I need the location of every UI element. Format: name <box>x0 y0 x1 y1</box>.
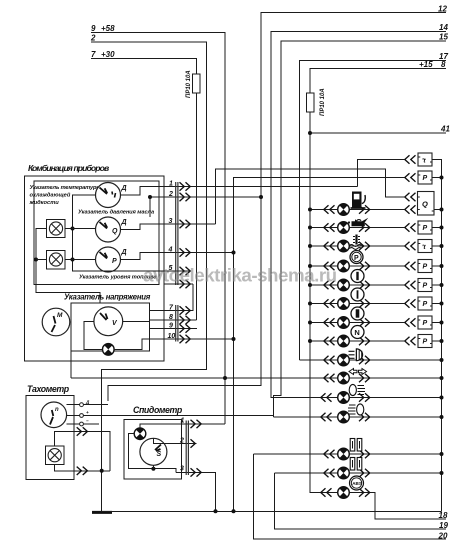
sensor U6 <box>418 260 432 273</box>
junction lamp2-chain <box>71 258 75 262</box>
svg-text:3: 3 <box>180 466 184 473</box>
connector to U8 <box>405 299 416 307</box>
icon oil can <box>348 218 368 227</box>
chevron row8 right <box>359 337 370 345</box>
junction row14 bus gnd <box>440 471 444 475</box>
node 9 +58 label <box>91 24 115 33</box>
wire U10 stub <box>432 340 442 342</box>
wire lamp2 to G3 <box>65 259 96 261</box>
sensor U7 <box>418 279 432 292</box>
lamp HL1 <box>338 204 350 216</box>
wire pin9 stub <box>150 328 197 330</box>
icon headlight <box>349 349 363 361</box>
junction U8-bus <box>440 302 444 306</box>
connector to U9 <box>405 318 416 326</box>
icon bar circle <box>351 288 364 301</box>
svg-text:2: 2 <box>168 191 173 198</box>
wire U9 stub <box>432 322 442 324</box>
chevron row7 left <box>324 318 335 326</box>
junction 41-bus <box>308 131 312 135</box>
svg-text:Указатель давления масла: Указатель давления масла <box>78 210 154 216</box>
chevron row4 left <box>324 262 335 270</box>
svg-text:Спидометр: Спидометр <box>133 405 183 415</box>
junction U6-bus <box>440 264 444 268</box>
junction row10 bus gnd <box>440 376 444 380</box>
chevron row2 right <box>359 223 370 231</box>
chevron row6 left <box>324 299 335 307</box>
ground symbol <box>92 511 112 514</box>
gauge G3 fuel <box>96 247 121 272</box>
wire lamp EL3 right <box>114 339 233 349</box>
wire +30 line7 <box>91 59 196 321</box>
wire line20 <box>253 454 446 539</box>
chevron row5 right <box>359 281 370 289</box>
svg-text:8: 8 <box>169 314 173 321</box>
chevron row15 left <box>321 488 332 496</box>
connector to U3 upper <box>405 193 416 201</box>
svg-text:+15: +15 <box>419 60 433 69</box>
icon fuel pump <box>351 192 366 209</box>
wire U2 stub right <box>432 177 442 179</box>
wire ground line <box>102 510 442 512</box>
connector bar X2 <box>176 305 178 342</box>
svg-text:2: 2 <box>179 438 184 445</box>
wire speedo gauge top pin2 <box>153 438 196 443</box>
wire t2 to line15 <box>83 415 273 417</box>
lamp HL10 <box>338 372 350 384</box>
chevron row7 right <box>359 318 370 326</box>
wire V left down <box>84 321 103 349</box>
wire speedo pin1 <box>140 424 225 428</box>
wire U3 upper to pin3 <box>216 169 405 224</box>
junction U7-bus <box>440 283 444 287</box>
junction row12 bus gnd <box>440 415 444 419</box>
chevron row5 left <box>324 281 335 289</box>
wire U4 stub <box>432 227 442 229</box>
lamp HL5 <box>338 279 350 291</box>
svg-text:M: M <box>57 312 63 319</box>
lamp HL14 <box>338 467 350 479</box>
chevron row6 right <box>359 299 370 307</box>
wire row4 park brake lamp <box>310 265 405 267</box>
svg-text:Q: Q <box>112 228 118 235</box>
connector bar X1 <box>176 182 178 285</box>
svg-text:ПР10 10А: ПР10 10А <box>186 70 192 98</box>
wire U1 to pin1 <box>358 160 405 187</box>
lamp HL3 <box>338 240 350 252</box>
wire G3 right to pin4 <box>121 253 234 260</box>
wire speedo lamp left <box>129 434 177 473</box>
wire row11 position lamp <box>271 397 442 399</box>
junction pin2 inner <box>148 195 152 199</box>
icon ABS <box>350 476 364 490</box>
wire line19 <box>275 473 446 529</box>
icon turn arrows <box>349 369 367 375</box>
gauge M <box>42 308 70 336</box>
junction lamp2 left <box>34 258 38 262</box>
wire U8 stub <box>432 303 442 305</box>
gauge G1 temp <box>96 183 121 208</box>
junction speedo ground <box>151 467 155 471</box>
lamp HL12 <box>338 411 350 423</box>
connector to U10 <box>405 337 416 345</box>
chevron row12 right <box>359 413 370 421</box>
junction row5 bus15 <box>308 283 312 287</box>
svg-text:3: 3 <box>169 218 173 225</box>
chevron row12 left <box>321 413 332 421</box>
svg-text:7: 7 <box>91 50 96 59</box>
lamp HL6 <box>338 298 350 310</box>
icon I circle <box>351 270 364 283</box>
junction row1 bus15 <box>308 208 312 212</box>
junction U5-bus <box>440 244 444 248</box>
wire line17 <box>300 61 447 361</box>
icon P circle <box>350 251 363 264</box>
wire U6 stub <box>432 265 442 267</box>
junction gnd volt10 <box>232 509 236 513</box>
wire tach lamp bottom <box>55 464 110 470</box>
pin 8 chevron <box>180 316 191 324</box>
chevron row10 right <box>359 374 370 382</box>
junction row6 bus15 <box>308 302 312 306</box>
chevron row4 right <box>359 262 370 270</box>
icon beam light <box>348 404 364 415</box>
wire speedo gauge bottom <box>152 465 154 468</box>
wire row1 fuel lamp <box>310 209 405 211</box>
chevron row15 right <box>359 488 370 496</box>
wire U2 to ground <box>234 178 405 512</box>
pin 5 chevron <box>180 267 191 275</box>
junction row13 bus gnd <box>440 452 444 456</box>
wire U5 stub <box>432 245 442 247</box>
lamp HL8 <box>338 335 350 347</box>
wire ground bus right <box>432 160 442 512</box>
chevron row11 right <box>359 393 370 401</box>
lamp HL9 <box>338 354 350 366</box>
icon position light <box>349 384 365 395</box>
junction pin2-line12 <box>259 195 263 199</box>
connector to U4 <box>405 223 416 231</box>
pin 6 chevron <box>180 280 191 288</box>
wire line15 <box>274 41 447 417</box>
svg-text:+30: +30 <box>101 50 115 59</box>
svg-text:4: 4 <box>168 247 173 254</box>
node 7 +30 label <box>91 50 115 59</box>
junction row7 bus15 <box>308 321 312 325</box>
tach pin chevron lower <box>77 467 88 475</box>
wire tach lamp top <box>55 432 110 471</box>
wire row8 lamp <box>310 340 405 342</box>
svg-text:ПР10 10А: ПР10 10А <box>320 88 326 116</box>
junction row9 bus gnd <box>440 358 444 362</box>
svg-text:Указатель температуры: Указатель температуры <box>30 185 102 191</box>
connector to U3 lower <box>405 205 416 213</box>
pin 7 chevron <box>180 306 191 314</box>
tach lamp square <box>45 446 64 465</box>
sensor U8 <box>418 297 432 310</box>
junction U2-bus <box>440 176 444 180</box>
wire line2 <box>91 42 207 511</box>
wire row2 oil lamp <box>310 227 405 229</box>
speedometer box <box>124 420 182 480</box>
svg-text:Д: Д <box>121 185 127 192</box>
svg-text:+58: +58 <box>101 24 115 33</box>
chevron row9 right <box>359 356 370 364</box>
wire +58 line9 <box>91 33 225 424</box>
pin 10 chevron <box>180 335 191 343</box>
wire row13 brake pad lamp <box>253 453 441 455</box>
chevron row14 right <box>359 469 370 477</box>
svg-text:avtoelektrika-shema.ru: avtoelektrika-shema.ru <box>143 265 337 286</box>
wire row12 beam lamp <box>274 416 442 418</box>
wire lamp1 to G2 <box>65 228 96 230</box>
wire row7 lamp <box>310 322 405 324</box>
voltage sub-box <box>71 303 150 351</box>
wire G2 right to pin3 <box>121 224 216 230</box>
lamp EL3 <box>103 344 115 356</box>
wire row3 temp lamp <box>310 245 405 247</box>
wire line14 <box>271 32 446 398</box>
gauge G2 oil <box>96 217 121 242</box>
svg-text:15: 15 <box>439 33 448 42</box>
junction gnd speedo3 <box>214 509 218 513</box>
tach lamp <box>48 449 61 462</box>
junction row3 bus15 <box>308 244 312 248</box>
svg-text:1: 1 <box>169 181 173 188</box>
wire line12 <box>108 13 446 402</box>
tachometer box <box>26 395 74 479</box>
wire row5 lamp <box>310 284 405 286</box>
svg-text:N: N <box>354 328 359 337</box>
pin 3 chevron <box>180 220 191 228</box>
icon brake pads 2 <box>350 458 362 471</box>
svg-text:1: 1 <box>181 418 185 425</box>
junction tach ground <box>100 469 104 473</box>
junction row4 bus15 <box>308 264 312 268</box>
wire lamp2 left stub <box>36 259 47 261</box>
connector bar X3 <box>186 421 188 476</box>
tach terminal 2 <box>67 414 84 418</box>
tach terminal 1 <box>67 403 84 407</box>
junction U3-bus <box>440 208 444 212</box>
icon thick bar circle <box>351 307 364 320</box>
lamp HL2 <box>338 222 350 234</box>
svg-text:Комбинация приборов: Комбинация приборов <box>28 163 109 173</box>
svg-text:14: 14 <box>439 23 448 32</box>
tach gauge <box>41 402 67 428</box>
lamp EL2 <box>49 253 62 266</box>
svg-text:Тахометр: Тахометр <box>27 384 70 394</box>
chevron row9 left <box>324 356 335 364</box>
lamp HL11 <box>338 392 350 404</box>
svg-text:охлаждающей: охлаждающей <box>30 192 71 199</box>
chevron row2 left <box>324 223 335 231</box>
chevron row13 left <box>324 450 335 458</box>
svg-text:9: 9 <box>91 24 96 33</box>
speedo pin 2 chevron <box>191 439 196 447</box>
connector to U2 <box>405 173 416 181</box>
wire voltbox corner down <box>70 351 72 378</box>
node 8 +15 label <box>419 60 446 69</box>
sensor U1 temp <box>418 153 432 166</box>
connector to U6 <box>405 262 416 270</box>
speedo gauge <box>140 438 167 465</box>
wire speedo pin3 <box>176 472 216 511</box>
chevron row1 left <box>324 205 335 213</box>
junction U10-bus <box>440 339 444 343</box>
lamp EL1 <box>49 222 62 235</box>
wire U3 stub right <box>434 209 442 211</box>
wire t1 to line12 <box>83 404 108 406</box>
wire U7 stub <box>432 284 442 286</box>
lamp EL1 square <box>47 219 66 237</box>
svg-text:n: n <box>55 407 59 413</box>
junction row11 bus gnd <box>440 396 444 400</box>
svg-text:P: P <box>112 258 117 265</box>
chevron row11 left <box>321 393 332 401</box>
svg-text:Д: Д <box>85 400 90 405</box>
sensor U5 <box>418 240 432 253</box>
svg-text:41: 41 <box>440 125 450 134</box>
wire row10 turn lamp <box>71 377 442 379</box>
chevron row13 right <box>359 450 370 458</box>
chevron row10 left <box>324 374 335 382</box>
icon thermometer <box>350 235 362 250</box>
junction row2 bus15 <box>308 226 312 230</box>
label temp gauge <box>29 185 102 206</box>
speedo pin 3 chevron <box>191 468 202 476</box>
wire V right pin8 <box>123 320 150 322</box>
pin 4 chevron <box>180 248 191 256</box>
instrument cluster box <box>25 176 164 361</box>
svg-text:10: 10 <box>168 333 176 340</box>
icon brake pads 1 <box>350 439 362 452</box>
fuse F1 <box>186 70 200 98</box>
wire G1 left chain <box>73 195 190 271</box>
svg-text:9: 9 <box>169 323 173 330</box>
speedo pin 1 chevron <box>191 420 202 428</box>
icon N circle <box>351 326 364 339</box>
wire t3 stub <box>83 423 99 425</box>
junction pin10-pin7 vertical <box>232 337 236 341</box>
svg-text:Д: Д <box>121 249 127 256</box>
connector to U7 <box>405 281 416 289</box>
wire line18 <box>355 493 447 520</box>
wire row6 lamp <box>310 303 405 305</box>
lamp HL13 <box>338 448 350 460</box>
wire pin2 <box>150 197 261 217</box>
connector to U1 <box>405 155 416 163</box>
pin 2 chevron <box>180 193 191 201</box>
connector to U5 <box>405 242 416 250</box>
lamp EL2 square <box>47 251 66 269</box>
gauge V <box>94 307 123 336</box>
sensor U2 oil pressure <box>418 171 432 184</box>
sensor U10 <box>418 335 432 348</box>
svg-text:Q: Q <box>422 200 428 209</box>
lamp HL15 <box>338 487 350 499</box>
fuse F2 <box>306 88 326 116</box>
junction pin4-bus <box>232 251 236 255</box>
wire row9 headlight lamp <box>300 359 442 361</box>
svg-text:8: 8 <box>441 60 446 69</box>
chevron row3 left <box>324 242 335 250</box>
chevron row14 left <box>324 469 335 477</box>
junction U9-bus <box>440 321 444 325</box>
wire lamps left chain <box>36 229 100 303</box>
junction row8 bus15 <box>308 339 312 343</box>
wire line8 fused bus <box>310 69 446 493</box>
svg-text:S: S <box>157 451 162 458</box>
svg-text:−: − <box>86 419 89 424</box>
pin 9 chevron <box>180 324 191 332</box>
wire line41 <box>310 132 446 134</box>
lamp HL7 <box>338 317 350 329</box>
svg-text:Указатель напряжения: Указатель напряжения <box>64 293 151 302</box>
pin 1 chevron <box>180 182 191 190</box>
wire row14 brake pad lamp <box>275 472 442 474</box>
chevron row3 right <box>359 242 370 250</box>
wire row15 abs lamp <box>310 492 375 494</box>
junction lamp1-chain <box>71 227 75 231</box>
tach terminal marks <box>85 400 90 424</box>
sensor U9 <box>418 316 432 329</box>
wire pin7 stub <box>150 284 193 311</box>
svg-text:+: + <box>86 410 89 415</box>
lamp HL4 <box>338 260 350 272</box>
tach terminal 3 <box>67 422 84 426</box>
svg-text:2: 2 <box>90 34 96 43</box>
tach pin chevron upper <box>77 427 88 435</box>
wire G1 right to pin1 <box>121 187 358 196</box>
pin 6 stub <box>164 283 193 285</box>
svg-text:P: P <box>354 255 359 262</box>
junction U4-bus <box>440 226 444 230</box>
speedo lamp <box>134 428 146 440</box>
svg-text:ABS: ABS <box>352 481 362 486</box>
junction row10 +58 <box>223 376 227 380</box>
chevron row8 left <box>324 337 335 345</box>
sensor U3 fuel level <box>418 192 435 216</box>
wire pin8 out <box>150 319 197 321</box>
svg-text:Д: Д <box>121 219 127 226</box>
chevron row1 right <box>359 205 370 213</box>
sensor U4 <box>418 221 432 234</box>
fuel gauges sub-box <box>34 181 159 284</box>
svg-text:жидкости: жидкости <box>29 200 60 206</box>
